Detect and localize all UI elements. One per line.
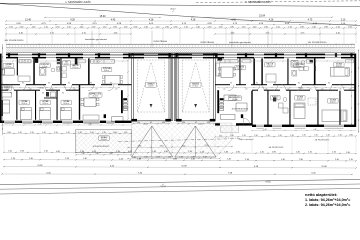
svg-text:1.10: 1.10 — [29, 88, 32, 90]
svg-text:1.50: 1.50 — [90, 132, 93, 134]
svg-text:tömörfalás gipszkarton: tömörfalás gipszkarton — [229, 41, 252, 44]
svg-text:0.90: 0.90 — [349, 134, 352, 136]
svg-text:2.20: 2.20 — [260, 151, 264, 153]
svg-text:10.08: 10.08 — [181, 166, 187, 168]
svg-text:4.28: 4.28 — [191, 19, 196, 21]
svg-text:15.04: 15.04 — [259, 15, 266, 18]
svg-text:2.10: 2.10 — [160, 145, 164, 147]
left outer wall — [0, 54, 2, 123]
svg-text:4.75: 4.75 — [82, 32, 86, 34]
garage driveway paving — [132, 123, 233, 157]
svg-text:56.12: 56.12 — [170, 8, 176, 10]
svg-text:90: 90 — [110, 83, 112, 85]
svg-text:SZOBA: SZOBA — [6, 63, 13, 66]
svg-text:2.10: 2.10 — [44, 151, 48, 153]
svg-text:0.90: 0.90 — [113, 132, 116, 134]
svg-text:1.40: 1.40 — [346, 152, 350, 154]
svg-text:1.28: 1.28 — [200, 151, 204, 153]
svg-text:2.40: 2.40 — [227, 159, 231, 161]
svg-text:0.90: 0.90 — [20, 26, 24, 28]
svg-text:ÜVEGTÉGLA: ÜVEGTÉGLA — [200, 41, 214, 44]
svg-text:1.40: 1.40 — [38, 123, 41, 125]
svg-text:2.40: 2.40 — [196, 26, 200, 28]
left porch — [112, 117, 124, 122]
svg-text:1.10: 1.10 — [156, 26, 160, 28]
svg-text:0.90: 0.90 — [92, 26, 96, 28]
svg-text:1.10: 1.10 — [184, 26, 188, 28]
top dim row E — [6, 33, 131, 35]
svg-text:2.40: 2.40 — [182, 145, 186, 147]
triangle base dims — [128, 157, 220, 159]
svg-text:1.10: 1.10 — [321, 88, 324, 90]
svg-text:2.40: 2.40 — [144, 26, 148, 28]
under-wall tick row right — [215, 136, 356, 137]
left apt top-row walls — [17, 58, 18, 75]
pillars — [8, 53, 10, 57]
svg-text:1.48: 1.48 — [132, 157, 135, 159]
svg-text:90: 90 — [274, 83, 276, 85]
svg-text:SZOBA: SZOBA — [336, 62, 343, 65]
svg-text:15.04: 15.04 — [100, 15, 107, 18]
svg-text:ÜVEGTÉGLA: ÜVEGTÉGLA — [153, 40, 167, 43]
svg-text:24.05: 24.05 — [185, 58, 189, 60]
svg-text:1.20: 1.20 — [302, 135, 305, 137]
svg-text:FÜRDŐSZ.: FÜRDŐSZ. — [41, 63, 50, 66]
svg-text:2.40: 2.40 — [95, 153, 98, 155]
svg-text:HÁLÓ A: HÁLÓ A — [72, 64, 79, 67]
svg-text:FÜRDŐ: FÜRDŐ — [4, 86, 11, 89]
bottom dim row 1 — [4, 152, 356, 153]
svg-text:90: 90 — [48, 83, 50, 85]
svg-text:74.04: 74.04 — [160, 186, 166, 188]
svg-text:SZOBA: SZOBA — [330, 99, 337, 102]
right dim column — [358, 50, 360, 132]
left dim column — [2, 44, 4, 135]
svg-text:HB. PILLÉR 20X20: HB. PILLÉR 20X20 — [269, 146, 284, 149]
svg-text:VB. PILLÉR 30X30: VB. PILLÉR 30X30 — [315, 138, 329, 141]
svg-text:4.28: 4.28 — [149, 19, 154, 21]
svg-text:1.10: 1.10 — [44, 26, 48, 28]
top dim row C — [6, 24, 356, 26]
svg-text:4.45: 4.45 — [114, 32, 118, 34]
under-wall tick row left — [4, 133, 131, 135]
svg-text:GARÁZS: GARÁZS — [147, 83, 155, 86]
svg-text:4.28: 4.28 — [269, 19, 274, 21]
left apt bottom-row walls — [16, 91, 17, 120]
svg-text:1. SZOMSZÉD LAKÁS: 1. SZOMSZÉD LAKÁS — [65, 1, 91, 4]
svg-text:0.90: 0.90 — [174, 26, 178, 28]
svg-text:2.40: 2.40 — [253, 26, 257, 28]
top dashed property line — [196, 1, 360, 3]
slope dash-dot line — [118, 139, 242, 142]
svg-text:0.90: 0.90 — [300, 26, 304, 28]
window sills left — [5, 123, 15, 125]
svg-text:FÜRDŐSZ.: FÜRDŐSZ. — [294, 63, 303, 66]
svg-text:90: 90 — [62, 93, 64, 95]
svg-text:0.90: 0.90 — [182, 122, 185, 124]
right apt top-row walls — [239, 58, 240, 84]
svg-text:2.40: 2.40 — [335, 159, 339, 161]
svg-text:1.10: 1.10 — [73, 88, 76, 90]
svg-text:2.40: 2.40 — [313, 129, 316, 131]
svg-text:GARÁZS: GARÁZS — [192, 83, 200, 86]
svg-text:1.20: 1.20 — [54, 132, 57, 134]
svg-text:2.10: 2.10 — [205, 145, 209, 147]
svg-text:1.20: 1.20 — [266, 135, 269, 137]
terrace right — [221, 126, 239, 133]
svg-text:1.50: 1.50 — [219, 26, 223, 28]
svg-text:0.90: 0.90 — [113, 26, 117, 28]
svg-text:0.90: 0.90 — [207, 122, 210, 124]
svg-text:1.10: 1.10 — [219, 135, 222, 137]
svg-text:HB. PILLÉR 20X20: HB. PILLÉR 20X20 — [5, 39, 25, 42]
svg-text:1.40: 1.40 — [263, 129, 266, 131]
garage front dims — [128, 147, 232, 148]
svg-text:0.90: 0.90 — [134, 26, 138, 28]
svg-text:4.45: 4.45 — [231, 19, 236, 21]
svg-text:1.10: 1.10 — [95, 88, 98, 90]
svg-text:1.40: 1.40 — [152, 151, 156, 153]
svg-text:4.45: 4.45 — [19, 32, 23, 34]
svg-text:1.98: 1.98 — [245, 159, 249, 161]
boundary dim line A — [2, 173, 352, 175]
svg-text:4.05: 4.05 — [109, 153, 112, 155]
svg-text:1.10: 1.10 — [124, 132, 127, 134]
svg-text:90: 90 — [230, 83, 232, 85]
svg-text:1.10: 1.10 — [336, 26, 340, 28]
svg-text:15.08: 15.08 — [321, 166, 327, 168]
svg-text:0.90: 0.90 — [162, 122, 165, 124]
right outer wall — [354, 54, 356, 127]
right front walls — [215, 123, 220, 125]
svg-text:2.28: 2.28 — [173, 159, 177, 161]
party wall (hollow pair) — [171, 54, 172, 121]
svg-text:2.40: 2.40 — [281, 159, 285, 161]
svg-text:1. SZOMSZÉD LAKÁS: 1. SZOMSZÉD LAKÁS — [245, 1, 271, 4]
svg-text:VB. PILLÉR 20X20: VB. PILLÉR 20X20 — [308, 41, 327, 44]
svg-text:4.45: 4.45 — [111, 19, 116, 21]
top boundary line 2 (sloped) — [0, 4, 360, 26]
svg-text:2. lakás: 94,26m²+24,0m²=: 2. lakás: 94,26m²+24,0m²= — [305, 203, 350, 207]
leader labels — [91, 31, 93, 48]
svg-text:2.10: 2.10 — [341, 19, 346, 21]
svg-text:1.20: 1.20 — [254, 135, 257, 137]
interior dim chains right — [217, 60, 354, 62]
right entry wall + stairs — [217, 90, 219, 113]
svg-text:0.90: 0.90 — [165, 26, 169, 28]
svg-text:4.28: 4.28 — [70, 19, 75, 21]
svg-text:1.10: 1.10 — [287, 88, 290, 90]
top boundary line 1 — [0, 3, 360, 6]
svg-text:24.05: 24.05 — [159, 58, 163, 60]
left apt corridor walls — [0, 84, 20, 85]
furniture left apt — [2, 68, 15, 75]
svg-text:SZOBA: SZOBA — [21, 100, 28, 103]
svg-text:KONYHA: KONYHA — [236, 65, 244, 68]
svg-text:1.10: 1.10 — [245, 88, 248, 90]
svg-text:2.18: 2.18 — [11, 158, 15, 160]
svg-text:1.48: 1.48 — [168, 157, 171, 159]
svg-text:0.90: 0.90 — [208, 26, 212, 28]
svg-text:2.40: 2.40 — [296, 152, 300, 154]
svg-text:1.10: 1.10 — [242, 26, 246, 28]
bottom extension verticals — [3, 136, 5, 152]
extension verticals — [5, 29, 7, 44]
svg-text:90: 90 — [328, 83, 330, 85]
svg-text:4.75: 4.75 — [266, 32, 270, 34]
left entry wall + stairs — [121, 90, 123, 113]
driveway triangle 2 — [175, 126, 216, 157]
svg-text:1.20: 1.20 — [314, 135, 317, 137]
svg-text:4.45: 4.45 — [231, 32, 235, 34]
svg-text:1.20: 1.20 — [242, 135, 245, 137]
room labels — [3, 63, 14, 68]
svg-text:1.16: 1.16 — [308, 152, 312, 154]
svg-text:2.40: 2.40 — [312, 26, 316, 28]
window sills right — [257, 127, 264, 129]
left terrace — [76, 130, 132, 153]
driveway triangle 1 — [132, 126, 173, 157]
svg-text:1.20: 1.20 — [78, 132, 81, 134]
svg-text:2.40: 2.40 — [80, 26, 84, 28]
north outer wall (two leaves) — [6, 54, 18, 56]
svg-text:nettó alapterület:: nettó alapterület: — [305, 192, 337, 197]
svg-text:1.08: 1.08 — [20, 151, 24, 153]
svg-text:15.81: 15.81 — [37, 165, 43, 167]
svg-text:0.90: 0.90 — [56, 151, 60, 153]
svg-text:90: 90 — [42, 93, 44, 95]
svg-text:1.10: 1.10 — [103, 26, 107, 28]
svg-text:1.10: 1.10 — [115, 88, 118, 90]
svg-text:2.40: 2.40 — [29, 158, 33, 160]
svg-text:1.50: 1.50 — [276, 26, 280, 28]
svg-text:KÖZL.: KÖZL. — [40, 87, 45, 90]
svg-text:SZOBA: SZOBA — [297, 96, 304, 99]
svg-text:2.80: 2.80 — [299, 159, 303, 161]
svg-text:1.98: 1.98 — [80, 151, 84, 153]
svg-text:76.04: 76.04 — [265, 182, 271, 184]
svg-text:1.10: 1.10 — [265, 88, 268, 90]
svg-text:1.10: 1.10 — [51, 88, 54, 90]
furniture right apt — [216, 63, 220, 76]
svg-text:0.90: 0.90 — [272, 152, 276, 154]
svg-text:90: 90 — [256, 83, 258, 85]
svg-text:SZOBA: SZOBA — [63, 100, 70, 103]
svg-text:0.90: 0.90 — [230, 26, 234, 28]
svg-text:1.50: 1.50 — [67, 26, 71, 28]
garage 1 interior — [138, 60, 165, 112]
svg-text:1.20: 1.20 — [18, 132, 21, 134]
svg-text:2.40: 2.40 — [191, 159, 195, 161]
svg-text:KÖZL.: KÖZL. — [299, 87, 304, 90]
door swing arcs — [20, 85, 26, 91]
garage 2 walls (hollow) — [176, 54, 178, 121]
svg-text:1.50: 1.50 — [9, 26, 13, 28]
svg-text:0.90: 0.90 — [137, 122, 140, 124]
svg-text:1.20: 1.20 — [230, 135, 233, 137]
svg-text:13.40: 13.40 — [25, 19, 31, 21]
long site line D — [0, 188, 360, 194]
svg-text:NAPPALI+ÉTK.: NAPPALI+ÉTK. — [89, 93, 102, 96]
svg-text:1.10: 1.10 — [349, 159, 353, 161]
svg-text:1.20: 1.20 — [30, 132, 33, 134]
svg-text:1.20: 1.20 — [8, 151, 12, 153]
svg-text:2.40: 2.40 — [32, 26, 36, 28]
svg-text:90: 90 — [10, 93, 12, 95]
svg-text:1.20: 1.20 — [102, 132, 105, 134]
svg-text:1.48: 1.48 — [81, 153, 84, 155]
svg-text:0.90: 0.90 — [56, 26, 60, 28]
svg-text:90: 90 — [298, 83, 300, 85]
svg-text:2.28: 2.28 — [65, 158, 69, 160]
svg-text:4.1: 4.1 — [150, 122, 152, 124]
garage 2 interior — [182, 60, 209, 112]
svg-text:0.28: 0.28 — [156, 157, 159, 159]
right porch — [221, 114, 235, 119]
svg-text:4.45: 4.45 — [336, 32, 340, 34]
garage door dims — [133, 123, 169, 125]
svg-text:0.90: 0.90 — [236, 151, 240, 153]
svg-text:0.90: 0.90 — [7, 132, 10, 134]
svg-text:1.50: 1.50 — [124, 26, 128, 28]
left front wall — [0, 121, 4, 123]
right porch door arc — [244, 118, 251, 125]
svg-text:2.40: 2.40 — [88, 123, 91, 125]
svg-text:1.40: 1.40 — [83, 158, 87, 160]
right apt corridor walls — [215, 84, 230, 85]
svg-text:SZOBA: SZOBA — [42, 100, 49, 103]
svg-text:1.18: 1.18 — [137, 158, 141, 160]
svg-text:1.10: 1.10 — [338, 134, 341, 136]
svg-text:TERASZ: TERASZ — [100, 136, 108, 139]
long site line B — [0, 180, 360, 185]
svg-text:1.10: 1.10 — [339, 88, 342, 90]
svg-text:0.90: 0.90 — [324, 26, 328, 28]
inner vertical chains — [127, 60, 129, 119]
svg-text:1.50: 1.50 — [348, 26, 352, 28]
svg-text:1. lakás: 94,26m²+24,0m²=: 1. lakás: 94,26m²+24,0m²= — [305, 198, 350, 202]
svg-text:90: 90 — [68, 83, 70, 85]
svg-text:0.90: 0.90 — [264, 26, 268, 28]
right apt bottom-row walls — [251, 91, 252, 125]
svg-text:4.75: 4.75 — [308, 19, 313, 21]
svg-text:4.75: 4.75 — [301, 32, 305, 34]
svg-text:5.46: 5.46 — [144, 157, 147, 159]
svg-text:7.48: 7.48 — [224, 151, 228, 153]
svg-text:4.1: 4.1 — [195, 122, 197, 124]
hatched back walkway strip — [6, 43, 355, 45]
svg-text:24.05: 24.05 — [140, 58, 144, 60]
svg-text:tömörfalás gipszkarton: tömörfalás gipszkarton — [85, 38, 108, 41]
svg-text:0.90: 0.90 — [164, 151, 168, 153]
garage 1 walls (hollow) — [132, 54, 134, 121]
svg-text:1.20: 1.20 — [42, 132, 45, 134]
svg-text:24.05: 24.05 — [204, 58, 208, 60]
svg-text:2.28: 2.28 — [119, 158, 123, 160]
svg-text:FÜRDŐ: FÜRDŐ — [272, 96, 279, 99]
svg-text:HÁLÓ A: HÁLÓ A — [267, 62, 274, 65]
svg-text:1.20: 1.20 — [278, 135, 281, 137]
bottom dim row 2 — [4, 160, 356, 161]
top dim row D (dense) — [6, 27, 356, 29]
svg-text:1.10: 1.10 — [223, 88, 226, 90]
svg-text:90: 90 — [90, 83, 92, 85]
long site line C — [0, 184, 360, 189]
svg-text:KONYHA: KONYHA — [103, 67, 111, 70]
svg-text:1.10: 1.10 — [288, 26, 292, 28]
svg-text:1.08: 1.08 — [92, 151, 96, 153]
svg-text:5.46: 5.46 — [179, 157, 182, 159]
top dim row B — [6, 20, 356, 22]
svg-text:90: 90 — [22, 83, 24, 85]
svg-text:0.90: 0.90 — [128, 151, 132, 153]
svg-text:1.10: 1.10 — [309, 88, 312, 90]
svg-text:2.16: 2.16 — [332, 152, 336, 154]
bottom dim row 3 — [4, 167, 356, 168]
svg-text:1.48: 1.48 — [203, 157, 206, 159]
svg-text:NAPPALI+ÉTK.: NAPPALI+ÉTK. — [229, 96, 242, 99]
top dim row A — [45, 17, 160, 19]
interior dim chains left — [2, 60, 129, 62]
svg-text:2.40: 2.40 — [138, 146, 142, 148]
svg-text:1.20: 1.20 — [66, 132, 69, 134]
svg-text:1.10: 1.10 — [349, 88, 352, 90]
svg-text:1.98: 1.98 — [188, 151, 192, 153]
svg-text:2.40: 2.40 — [116, 151, 120, 153]
